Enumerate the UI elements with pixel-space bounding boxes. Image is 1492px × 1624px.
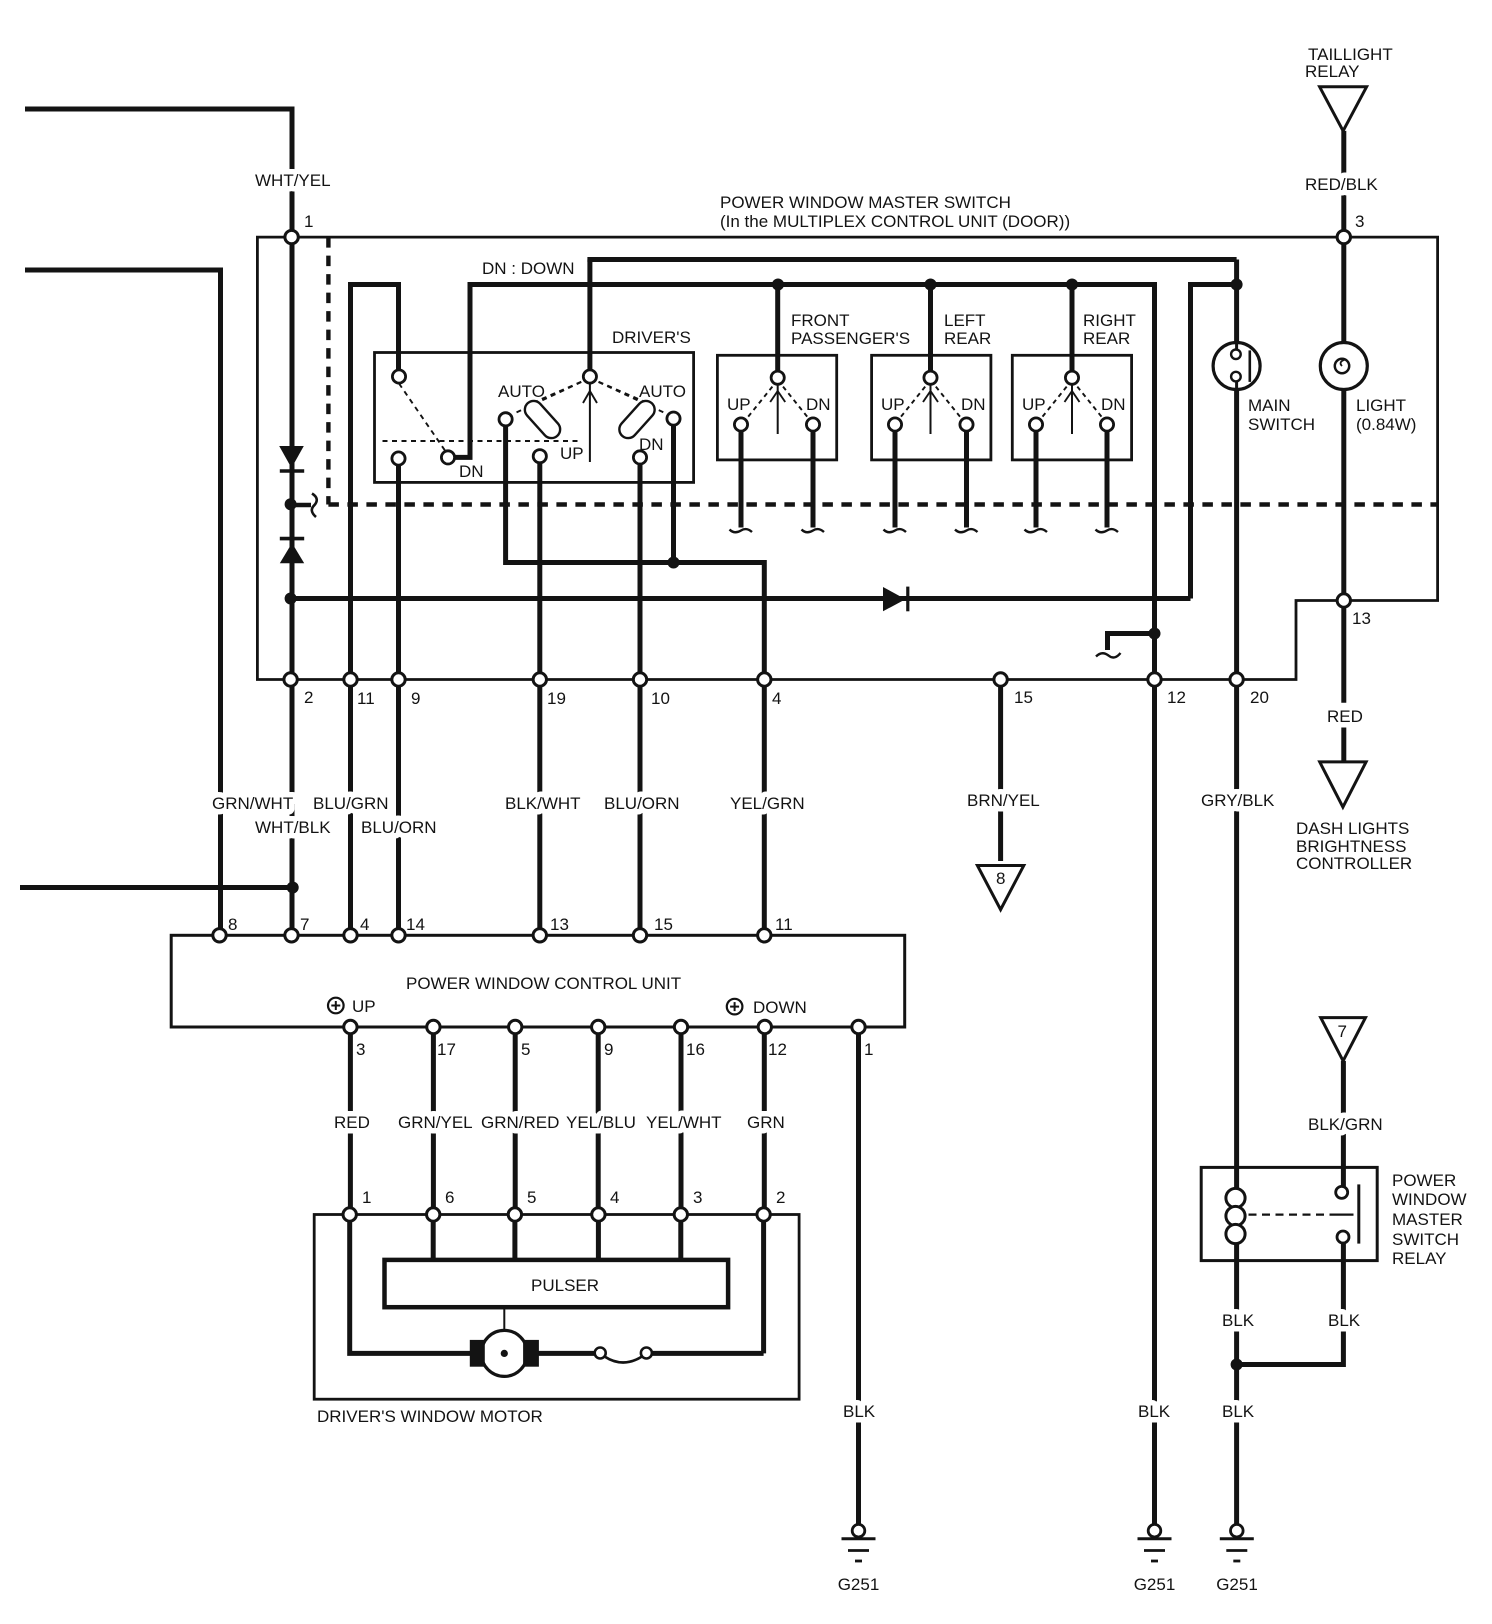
svg-text:BLK: BLK (1328, 1311, 1361, 1330)
svg-text:WINDOW: WINDOW (1392, 1190, 1467, 1209)
svg-text:1: 1 (864, 1040, 873, 1059)
svg-text:DN : DOWN: DN : DOWN (482, 259, 575, 278)
svg-text:BLU/ORN: BLU/ORN (604, 794, 680, 813)
svg-text:GRN: GRN (747, 1113, 785, 1132)
svg-text:DN: DN (459, 462, 484, 481)
svg-text:WHT/BLK: WHT/BLK (255, 818, 331, 837)
svg-text:3: 3 (1355, 212, 1364, 231)
svg-text:2: 2 (776, 1188, 785, 1207)
svg-text:BLU/GRN: BLU/GRN (313, 794, 389, 813)
svg-text:RED/BLK: RED/BLK (1305, 175, 1378, 194)
svg-text:MASTER: MASTER (1392, 1210, 1463, 1229)
svg-text:MAIN: MAIN (1248, 396, 1291, 415)
svg-text:BLU/ORN: BLU/ORN (361, 818, 437, 837)
svg-text:LIGHT: LIGHT (1356, 396, 1406, 415)
svg-text:5: 5 (521, 1040, 530, 1059)
svg-text:DN: DN (961, 395, 986, 414)
svg-text:11: 11 (775, 915, 793, 934)
svg-text:CONTROLLER: CONTROLLER (1296, 854, 1412, 873)
svg-text:SWITCH: SWITCH (1392, 1230, 1459, 1249)
svg-text:REAR: REAR (944, 329, 991, 348)
svg-text:10: 10 (651, 689, 670, 708)
svg-text:DRIVER'S: DRIVER'S (612, 328, 691, 347)
svg-text:7: 7 (1338, 1022, 1347, 1041)
svg-text:15: 15 (1014, 688, 1033, 707)
svg-text:19: 19 (547, 689, 566, 708)
svg-text:RIGHT: RIGHT (1083, 311, 1136, 330)
svg-text:BLK: BLK (843, 1402, 876, 1421)
svg-text:BRN/YEL: BRN/YEL (967, 791, 1040, 810)
svg-text:GRN/WHT: GRN/WHT (212, 794, 293, 813)
svg-text:REAR: REAR (1083, 329, 1130, 348)
svg-text:AUTO: AUTO (639, 382, 686, 401)
svg-text:DN: DN (1101, 395, 1126, 414)
svg-text:RELAY: RELAY (1392, 1249, 1447, 1268)
svg-text:12: 12 (768, 1040, 787, 1059)
svg-text:PULSER: PULSER (531, 1276, 599, 1295)
svg-text:12: 12 (1167, 688, 1186, 707)
svg-text:20: 20 (1250, 688, 1269, 707)
svg-text:G251: G251 (1216, 1575, 1258, 1594)
svg-text:YEL/GRN: YEL/GRN (730, 794, 805, 813)
svg-text:SWITCH: SWITCH (1248, 415, 1315, 434)
svg-text:POWER: POWER (1392, 1171, 1456, 1190)
svg-text:DN: DN (806, 395, 831, 414)
svg-text:POWER WINDOW MASTER SWITCH: POWER WINDOW MASTER SWITCH (720, 193, 1011, 212)
svg-text:UP: UP (560, 444, 584, 463)
svg-text:13: 13 (1352, 609, 1371, 628)
svg-text:9: 9 (411, 689, 420, 708)
svg-text:8: 8 (996, 869, 1005, 888)
svg-text:(In the MULTIPLEX CONTROL UNIT: (In the MULTIPLEX CONTROL UNIT (DOOR)) (720, 212, 1070, 231)
svg-text:DN: DN (639, 435, 664, 454)
svg-text:5: 5 (527, 1188, 536, 1207)
svg-text:3: 3 (356, 1040, 365, 1059)
svg-text:WHT/YEL: WHT/YEL (255, 171, 331, 190)
svg-text:GRN/YEL: GRN/YEL (398, 1113, 473, 1132)
svg-text:11: 11 (357, 689, 375, 708)
svg-text:16: 16 (686, 1040, 705, 1059)
svg-text:DASH LIGHTS: DASH LIGHTS (1296, 819, 1409, 838)
svg-text:BLK: BLK (1222, 1311, 1255, 1330)
svg-text:PASSENGER'S: PASSENGER'S (791, 329, 910, 348)
svg-text:FRONT: FRONT (791, 311, 850, 330)
svg-text:3: 3 (693, 1188, 702, 1207)
svg-text:BLK: BLK (1138, 1402, 1171, 1421)
svg-text:4: 4 (610, 1188, 619, 1207)
svg-text:RED: RED (334, 1113, 370, 1132)
svg-text:DRIVER'S WINDOW MOTOR: DRIVER'S WINDOW MOTOR (317, 1407, 543, 1426)
svg-text:BLK/GRN: BLK/GRN (1308, 1115, 1383, 1134)
svg-text:1: 1 (304, 212, 313, 231)
svg-text:14: 14 (406, 915, 425, 934)
svg-text:DOWN: DOWN (753, 998, 807, 1017)
svg-text:7: 7 (300, 915, 309, 934)
svg-text:YEL/WHT: YEL/WHT (646, 1113, 722, 1132)
svg-text:2: 2 (304, 688, 313, 707)
svg-text:G251: G251 (838, 1575, 880, 1594)
svg-text:RED: RED (1327, 707, 1363, 726)
svg-text:GRY/BLK: GRY/BLK (1201, 791, 1275, 810)
svg-text:UP: UP (881, 395, 905, 414)
svg-text:15: 15 (654, 915, 673, 934)
svg-text:9: 9 (604, 1040, 613, 1059)
svg-text:6: 6 (445, 1188, 454, 1207)
svg-text:BLK/WHT: BLK/WHT (505, 794, 581, 813)
svg-text:LEFT: LEFT (944, 311, 986, 330)
svg-text:AUTO: AUTO (498, 382, 545, 401)
svg-text:UP: UP (1022, 395, 1046, 414)
svg-text:G251: G251 (1134, 1575, 1176, 1594)
svg-text:17: 17 (437, 1040, 456, 1059)
svg-text:4: 4 (360, 915, 369, 934)
svg-text:POWER WINDOW CONTROL UNIT: POWER WINDOW CONTROL UNIT (406, 974, 681, 993)
svg-text:GRN/RED: GRN/RED (481, 1113, 559, 1132)
svg-text:8: 8 (228, 915, 237, 934)
svg-text:RELAY: RELAY (1305, 62, 1360, 81)
svg-text:4: 4 (772, 689, 781, 708)
svg-text:13: 13 (550, 915, 569, 934)
svg-text:1: 1 (362, 1188, 371, 1207)
svg-text:BLK: BLK (1222, 1402, 1255, 1421)
svg-text:UP: UP (352, 997, 376, 1016)
svg-text:YEL/BLU: YEL/BLU (566, 1113, 636, 1132)
svg-text:UP: UP (727, 395, 751, 414)
svg-text:(0.84W): (0.84W) (1356, 415, 1416, 434)
